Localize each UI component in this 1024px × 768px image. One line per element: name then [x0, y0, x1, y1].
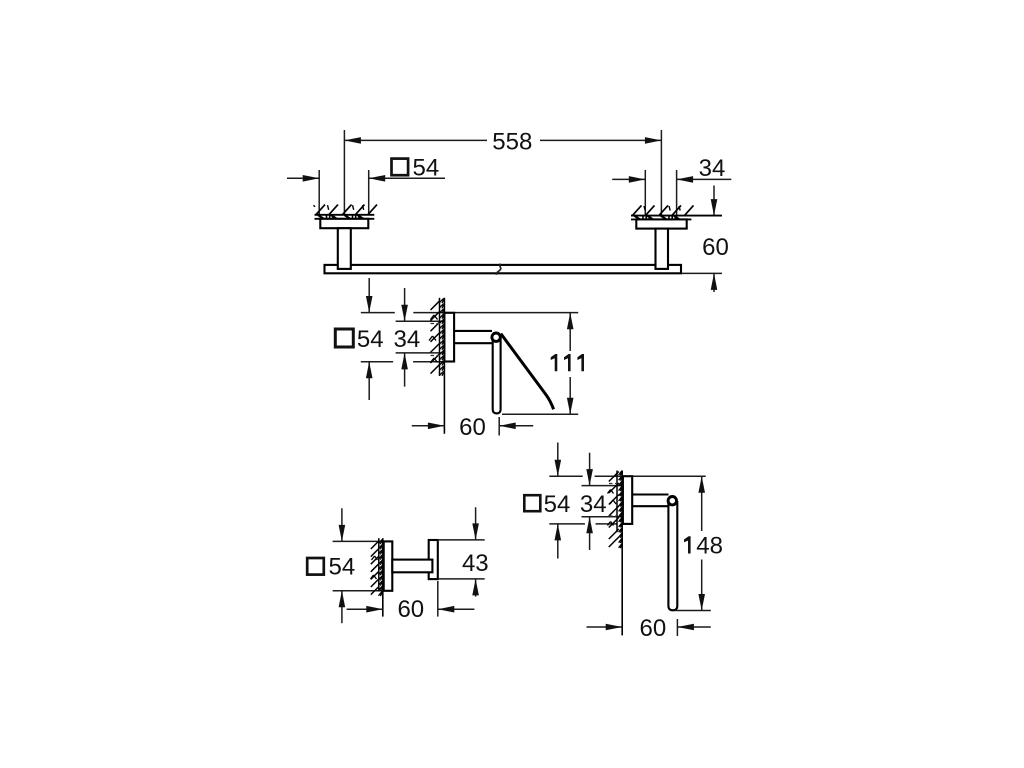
holder2 wall surface line [443, 298, 445, 434]
svg-text:48: 48 [696, 533, 723, 560]
holder2 111 bottom extension line [502, 413, 578, 415]
holder4 square-54 label [524, 491, 570, 518]
hook 60 dimension [347, 581, 475, 617]
holder2 arm [454, 331, 492, 343]
holder4 wall hatch [608, 471, 622, 548]
holder2 34 lower arrow [401, 353, 408, 387]
hook 43 extension lines [438, 540, 485, 579]
svg-text:54: 54 [357, 326, 384, 353]
holder4 34 extension lines [582, 486, 623, 517]
hook 43 text [462, 550, 489, 577]
svg-text:60: 60 [702, 234, 729, 261]
holder4 top extension line [549, 475, 705, 477]
svg-text:34: 34 [699, 155, 726, 182]
towel bar 60 dimension arrows right side [681, 186, 722, 293]
svg-text:558: 558 [492, 128, 532, 155]
holder2 square-54 upper arrow [366, 278, 373, 313]
holder4 34 label [580, 491, 607, 518]
towel bar right wall lines [631, 216, 722, 220]
svg-text:60: 60 [397, 596, 424, 623]
holder2 cover flap [501, 334, 554, 410]
holder4 hidden hole dashes [609, 484, 617, 517]
svg-text:34: 34 [580, 491, 607, 518]
holder4 54 bottom extension line [549, 523, 617, 525]
hook mounting plate [384, 541, 393, 590]
svg-text:60: 60 [459, 414, 486, 441]
holder2 60 text [459, 414, 486, 441]
hook wall hatch [371, 540, 383, 597]
holder4 arm [632, 495, 668, 507]
holder2 square-54 label [335, 326, 383, 353]
holder4 34 upper arrow [586, 453, 593, 486]
hook square-54 label [307, 554, 355, 581]
holder2 wall hatch [429, 299, 444, 376]
towel bar square-54 label [392, 155, 440, 182]
holder4 60 dimension [587, 619, 711, 636]
hook wall hatch boundary line [378, 538, 380, 591]
svg-text:54: 54 [329, 554, 356, 581]
holder4 square-54 lower arrow [555, 524, 562, 559]
towel bar left post [338, 228, 351, 269]
holder4 34 lower arrow [586, 517, 593, 550]
hook arm [392, 560, 432, 573]
towel bar 558 dimension line [344, 137, 661, 144]
holder2 34 upper arrow [401, 288, 408, 321]
holder2 60 dimension [412, 417, 533, 436]
towel bar 34 extension lines right [645, 170, 676, 215]
hook knob [429, 540, 438, 579]
towel bar right post [656, 229, 669, 269]
holder2 hidden hole dashes [431, 324, 442, 356]
towel bar 558 dimension extension lines [344, 130, 661, 215]
towel bar rail [325, 264, 682, 275]
holder2 top extension line [361, 312, 578, 314]
towel bar 60 dimension text [702, 234, 729, 261]
hook 60 text [397, 596, 424, 623]
towel bar 558 dimension text [492, 128, 532, 155]
hook square-54 upper arrow [339, 508, 346, 541]
hook wall surface line [382, 538, 384, 616]
towel bar right wall hatch [633, 205, 694, 219]
towel bar 34 dimension text [699, 155, 726, 182]
hook 43 arrows [472, 507, 479, 596]
towel bar square-54 extension lines left [319, 170, 369, 215]
towel bar left mounting plate [320, 219, 368, 228]
holder2 wall hatch boundary line [439, 298, 441, 376]
towel bar 34 dimension arrows right [612, 176, 731, 183]
holder4 roll bar tube [668, 501, 677, 610]
towel bar left wall hatch [314, 205, 378, 219]
svg-text:60: 60 [640, 615, 667, 642]
hook bottom extension line [333, 590, 393, 592]
svg-text:54: 54 [544, 491, 571, 518]
towel bar left wall lines [315, 215, 375, 219]
holder4 60 text [640, 615, 667, 642]
holder4 pivot circle [668, 497, 676, 505]
hook top extension line [333, 540, 393, 542]
svg-text:43: 43 [462, 550, 489, 577]
holder2 34 extension lines [396, 321, 448, 353]
holder2 111 text [551, 354, 584, 371]
holder2 roll bar tube [493, 338, 501, 414]
holder2 54 bottom extension line [361, 361, 445, 363]
holder4 wall hatch boundary line [616, 471, 618, 533]
holder4 148 bottom extension line [674, 610, 710, 612]
holder4 wall surface line [621, 471, 623, 636]
holder2 111 dimension line [567, 313, 574, 415]
towel bar right mounting plate [636, 219, 686, 228]
holder4 148 text [684, 533, 723, 560]
holder2 square-54 lower arrow [366, 362, 373, 400]
holder4 square-54 upper arrow [555, 443, 562, 477]
holder2 pivot circle [492, 333, 500, 341]
holder2 mounting plate [444, 313, 454, 362]
svg-text:34: 34 [394, 326, 421, 353]
hook square-54 lower arrow [339, 591, 346, 623]
svg-text:54: 54 [413, 155, 440, 182]
holder4 148 dimension line [698, 476, 705, 610]
holder2 34 label [394, 326, 421, 353]
towel bar square-54 dimension arrows left [287, 175, 445, 182]
holder4 mounting plate [623, 476, 632, 524]
